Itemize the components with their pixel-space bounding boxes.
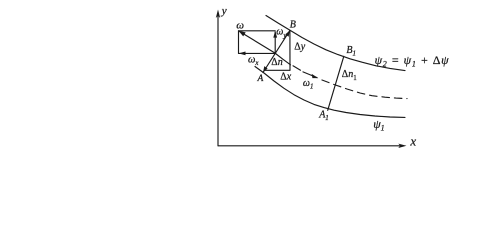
omega_y arrowhead (pointing up) <box>273 31 277 38</box>
streamline psi2 (upper) <box>266 16 405 71</box>
y-axis arrowhead <box>216 10 220 19</box>
x-axis arrowhead <box>398 144 406 148</box>
delta n arrowhead at A <box>263 66 268 72</box>
omega_y arrow (right edge) <box>274 32 276 53</box>
svg-text:B: B <box>290 19 296 30</box>
svg-text:A: A <box>257 74 264 84</box>
delta n arrowhead at B <box>285 30 290 36</box>
segment A1B1 (delta n1) <box>328 56 344 110</box>
velocity rectangle top edge <box>239 30 276 32</box>
omega_l arrowhead <box>312 74 319 78</box>
delta x horizontal leg <box>265 69 290 71</box>
omega_l vector segment <box>303 72 317 78</box>
velocity rectangle left edge <box>238 31 240 54</box>
x-axis <box>218 145 403 147</box>
delta y vertical leg <box>289 30 291 70</box>
streamline psi1 (lower) <box>255 67 405 118</box>
svg-text:Δx: Δx <box>280 72 291 83</box>
middle streamline solid start <box>276 54 291 65</box>
svg-text:Δn: Δn <box>271 57 282 68</box>
segment AB (delta n) <box>263 30 290 72</box>
svg-text:ω: ω <box>236 19 244 31</box>
omega arrowhead (at top-left corner) <box>239 31 246 37</box>
y-axis <box>217 14 219 146</box>
mid-line dash <box>293 66 301 70</box>
svg-text:x: x <box>409 133 416 148</box>
omega_x arrow (bottom edge) <box>239 52 276 54</box>
omega vector diagonal <box>239 31 275 53</box>
svg-text:y: y <box>221 5 227 17</box>
svg-text:Δy: Δy <box>294 42 305 53</box>
omega_x arrowhead (pointing left) <box>239 52 246 56</box>
middle streamline dashed part <box>322 80 407 99</box>
